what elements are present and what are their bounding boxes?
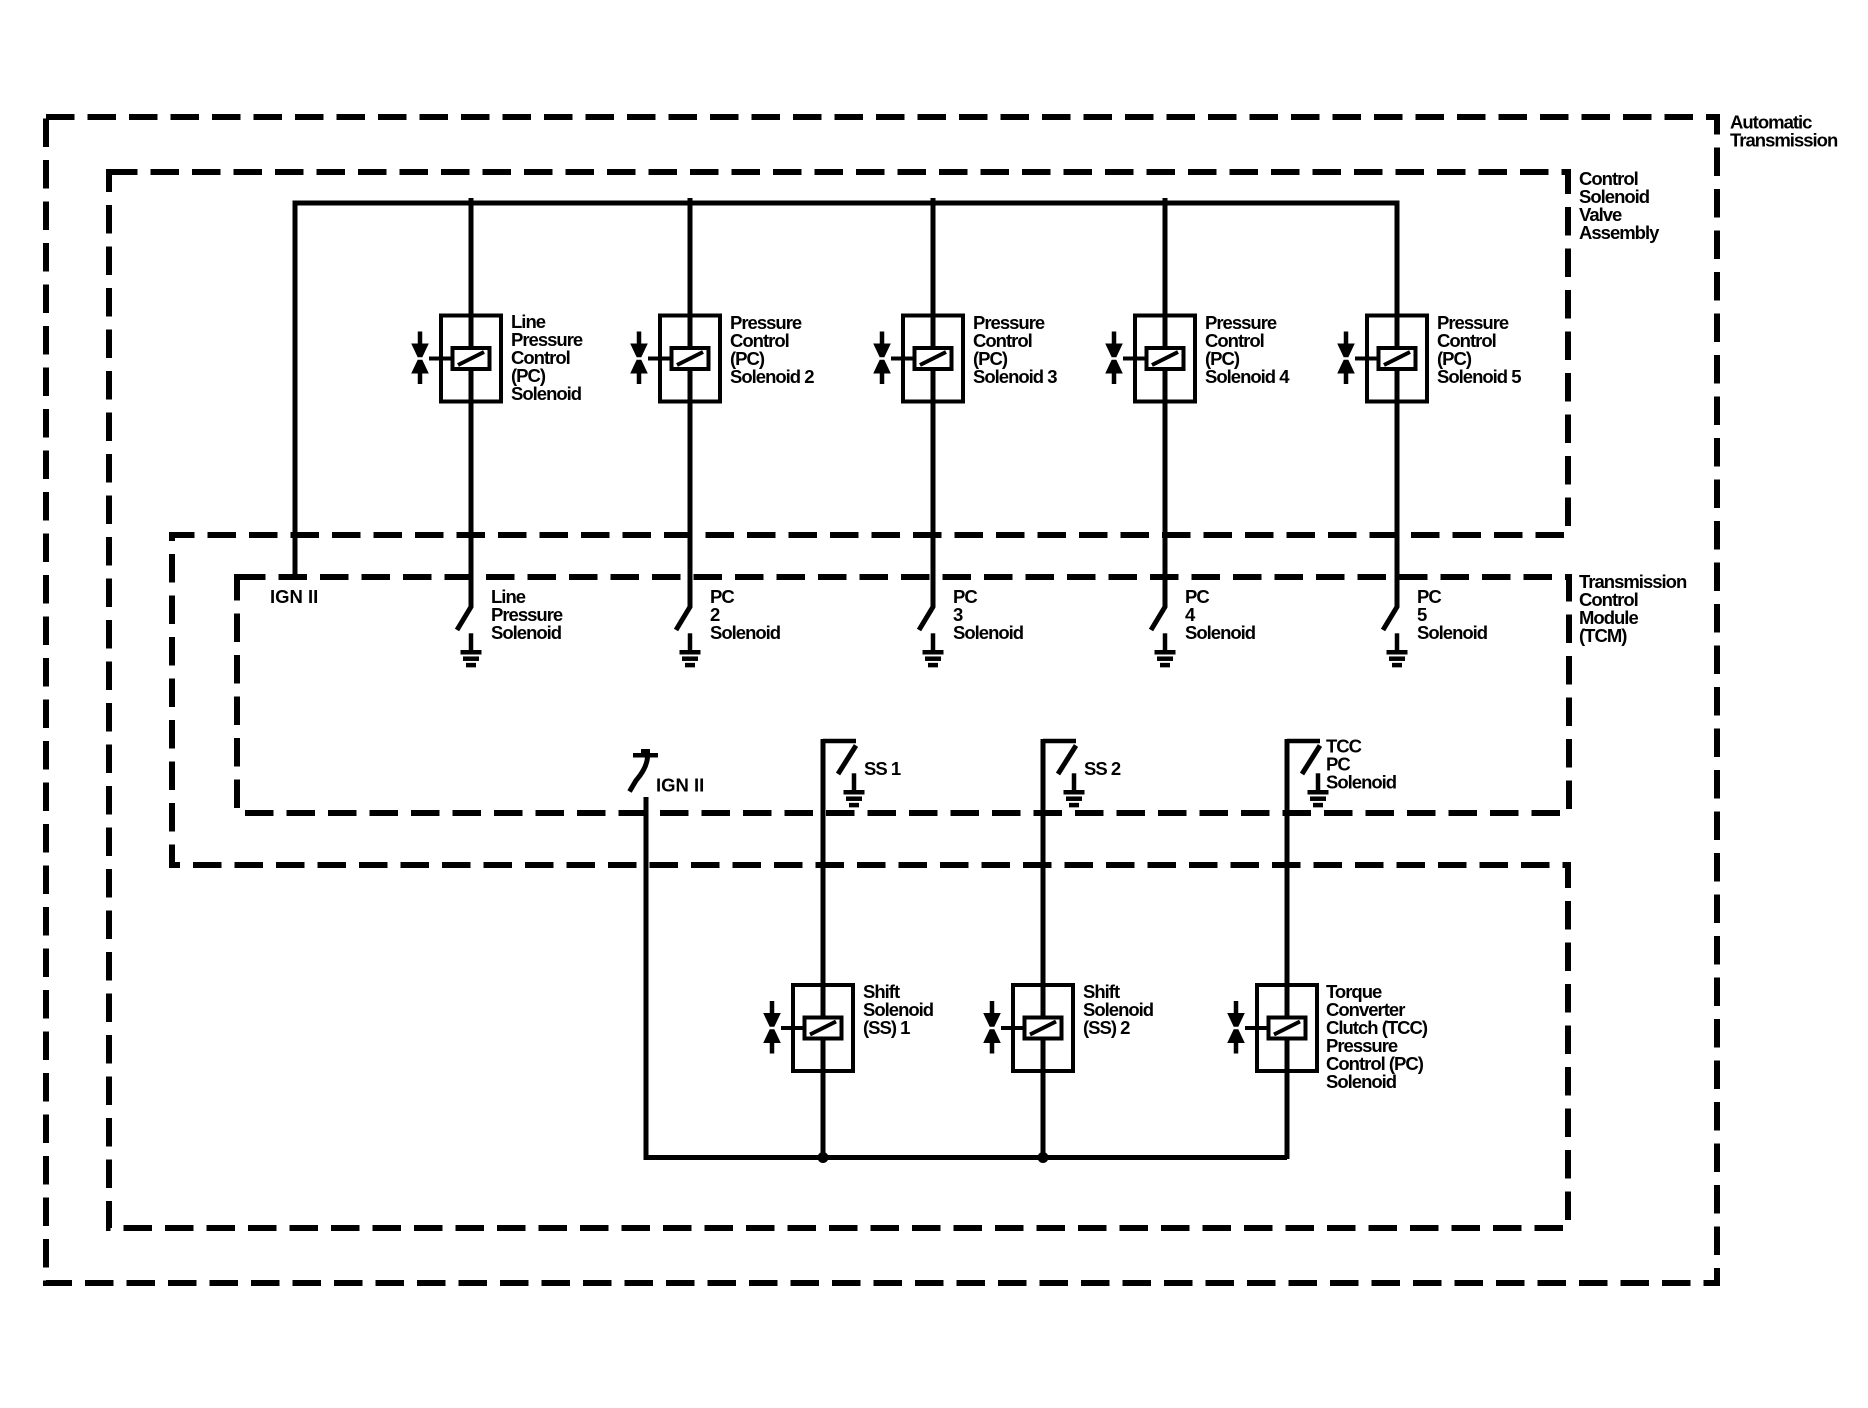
- solenoid: Shift Solenoid (SS) 1: [763, 981, 934, 1071]
- wire: TCC PC solenoid line: [1285, 739, 1290, 1159]
- svg-text:SS 1: SS 1: [864, 758, 901, 779]
- switch: IGN II feed switch: [630, 749, 705, 796]
- ground: [1064, 773, 1085, 805]
- wire: PC Solenoid 3 line: [931, 198, 936, 607]
- enclosure: Automatic Transmission: [46, 112, 1838, 1284]
- solenoid: Pressure Control (PC) Solenoid 3: [873, 312, 1057, 402]
- svg-text:(TCM): (TCM): [1579, 625, 1627, 646]
- wire: IGN II to bottom solenoid supply bus: [644, 797, 649, 1158]
- svg-text:Solenoid: Solenoid: [1326, 1071, 1397, 1092]
- solenoid: Shift Solenoid (SS) 2: [983, 981, 1154, 1071]
- svg-text:Transmission: Transmission: [1730, 130, 1838, 151]
- svg-text:IGN II: IGN II: [270, 586, 318, 607]
- switch: Shift Solenoid 2 driver: [1043, 741, 1121, 779]
- svg-text:(SS) 1: (SS) 1: [863, 1017, 910, 1038]
- ground: [1387, 633, 1408, 665]
- solenoid: Torque Converter Clutch (TCC) Pressure Control (PC) Solenoid: [1227, 981, 1428, 1092]
- wire: IGN II feed and top solenoid supply bus: [295, 203, 1397, 607]
- svg-text:Solenoid: Solenoid: [1326, 772, 1397, 793]
- svg-text:Solenoid: Solenoid: [491, 622, 562, 643]
- svg-text:Solenoid 5: Solenoid 5: [1437, 366, 1521, 387]
- solenoid: Pressure Control (PC) Solenoid 2: [630, 312, 814, 402]
- svg-text:Solenoid 3: Solenoid 3: [973, 366, 1057, 387]
- wire: Line Pressure Control solenoid line: [469, 198, 474, 607]
- svg-text:Solenoid: Solenoid: [953, 622, 1024, 643]
- svg-text:Solenoid: Solenoid: [1185, 622, 1256, 643]
- svg-text:Solenoid: Solenoid: [710, 622, 781, 643]
- wire: bottom solenoid supply bus: [644, 1155, 1288, 1160]
- ground: [923, 633, 944, 665]
- solenoid: Pressure Control (PC) Solenoid 4: [1105, 312, 1290, 402]
- switch: PC 2 Solenoid driver: [676, 586, 781, 643]
- svg-text:SS 2: SS 2: [1084, 758, 1121, 779]
- switch: Line Pressure Solenoid driver: [457, 586, 563, 643]
- svg-text:Solenoid: Solenoid: [1417, 622, 1488, 643]
- svg-text:Solenoid: Solenoid: [511, 383, 582, 404]
- switch: PC 4 Solenoid driver: [1151, 586, 1256, 643]
- switch: PC 5 Solenoid driver: [1383, 586, 1488, 643]
- ground: [680, 633, 701, 665]
- svg-text:Solenoid 4: Solenoid 4: [1205, 366, 1290, 387]
- svg-text:Solenoid 2: Solenoid 2: [730, 366, 814, 387]
- junction: SS2 line to bus: [1038, 1152, 1049, 1163]
- switch: TCC PC Solenoid driver: [1287, 736, 1397, 793]
- wire: PC Solenoid 4 line: [1163, 198, 1168, 607]
- svg-text:Assembly: Assembly: [1579, 222, 1660, 243]
- svg-text:(SS) 2: (SS) 2: [1083, 1017, 1130, 1038]
- switch: Shift Solenoid 1 driver: [823, 741, 901, 779]
- switch: PC 3 Solenoid driver: [919, 586, 1024, 643]
- solenoid: Pressure Control (PC) Solenoid 5: [1337, 312, 1521, 402]
- wire: Shift Solenoid 2 line: [1041, 739, 1046, 1159]
- enclosure: Transmission Control Module (TCM): [237, 571, 1687, 813]
- wire: Shift Solenoid 1 line: [821, 739, 826, 1159]
- ground: [461, 633, 482, 665]
- ground: [844, 773, 865, 805]
- ground: [1155, 633, 1176, 665]
- svg-text:IGN II: IGN II: [656, 775, 704, 796]
- enclosure: Control Solenoid Valve Assembly: [109, 168, 1660, 1228]
- wire: PC Solenoid 2 line: [688, 198, 693, 607]
- solenoid: Line Pressure Control (PC) Solenoid: [411, 311, 583, 404]
- junction: SS1 line to bus: [818, 1152, 829, 1163]
- ground: [1308, 773, 1329, 805]
